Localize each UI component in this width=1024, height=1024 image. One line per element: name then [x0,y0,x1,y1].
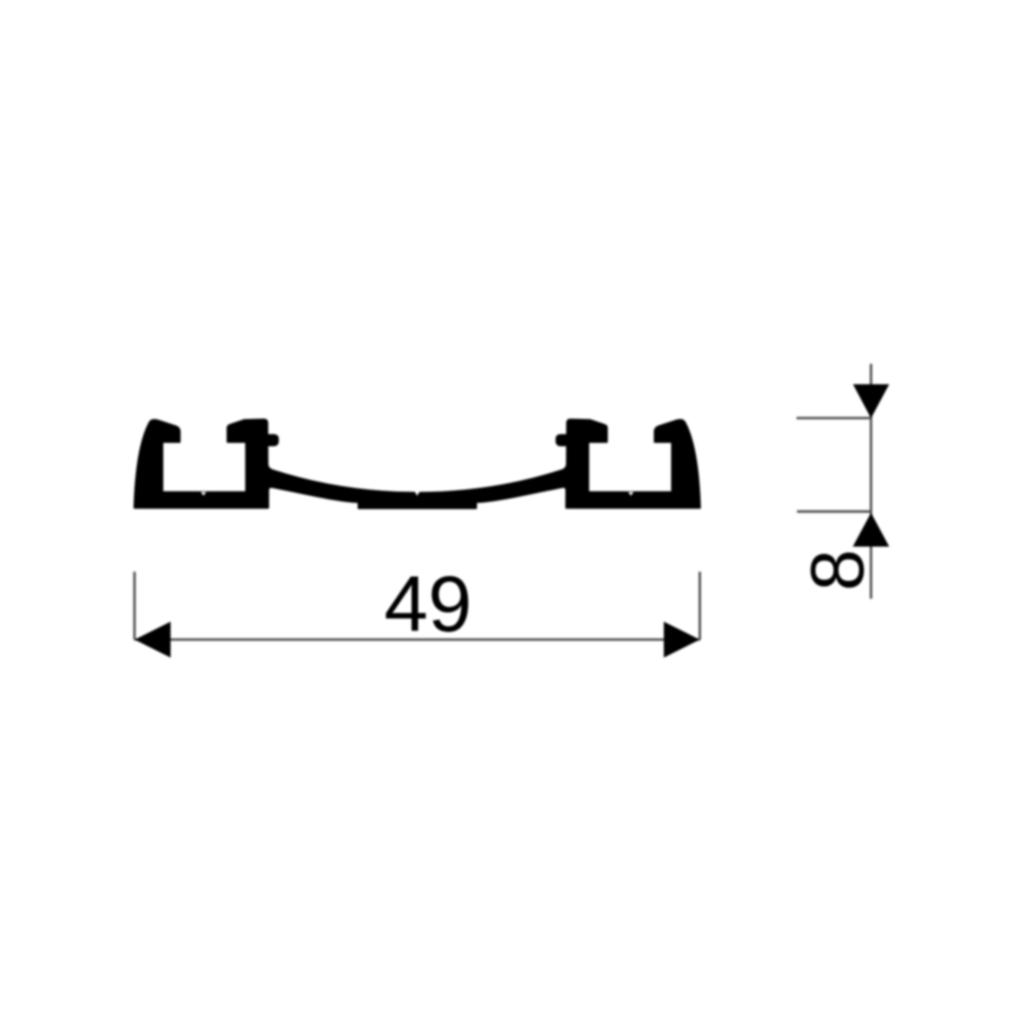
svg-text:8: 8 [795,549,879,591]
profile cross-section body [135,420,700,509]
extension line left [133,572,135,640]
dimension line 49 [135,638,700,640]
svg-text:49: 49 [384,559,472,648]
arrowhead right [664,622,700,658]
arrowhead top (points down) [853,384,889,418]
nub on left channel right wall [260,434,279,446]
white notch right channel floor [628,492,633,496]
vertical dimension line 8 [870,364,872,599]
white notch web top center [415,491,420,496]
nub on right channel left wall [556,434,575,446]
arrowhead bottom (points up) [853,513,889,547]
extension line top (8 dim) [797,417,872,419]
white notch left channel floor [201,492,206,496]
extension line right [699,572,701,640]
arrowhead left [135,622,171,658]
extension line bottom (8 dim) [797,510,871,512]
